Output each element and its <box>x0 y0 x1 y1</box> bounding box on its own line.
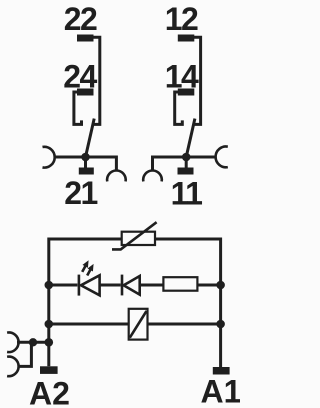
wire coil frame top <box>49 239 221 367</box>
svg-text:11: 11 <box>171 176 203 212</box>
plug contact right bottom <box>143 171 162 182</box>
terminal 24 <box>77 89 94 96</box>
LED cathode bar <box>78 275 81 296</box>
node A2 plug <box>29 338 37 346</box>
node LED branch right <box>216 281 225 290</box>
plug contact left side <box>42 147 54 168</box>
node LED branch left <box>45 281 54 290</box>
varistor RV <box>122 232 155 245</box>
plug contact left bottom <box>107 171 126 182</box>
terminal 21 <box>79 168 94 175</box>
wire to terminal 11 <box>185 157 188 168</box>
plug contact A2 lower <box>7 357 19 377</box>
wire LED branch <box>49 284 221 287</box>
node left common <box>81 153 90 162</box>
switch blade right <box>186 119 195 157</box>
diode cathode bar <box>121 275 124 296</box>
svg-text:22: 22 <box>64 1 97 37</box>
wire A2 plug riser <box>18 342 31 366</box>
relay coil K <box>129 309 148 340</box>
terminal 11 <box>178 168 194 175</box>
svg-text:A1: A1 <box>201 374 240 408</box>
node A2 rail <box>45 338 54 347</box>
wire A2 plug branch <box>17 341 49 344</box>
plug contact A2 upper <box>7 333 19 353</box>
terminal 22 <box>77 35 94 42</box>
svg-text:12: 12 <box>165 1 198 37</box>
varistor diagonal <box>112 222 157 249</box>
wire coil branch <box>49 323 221 326</box>
terminal 14 <box>178 89 195 96</box>
node right common <box>182 153 191 162</box>
LED arrow 2 <box>87 264 93 276</box>
node coil branch left <box>45 320 54 329</box>
wire 12 to fixed contact <box>193 37 201 124</box>
node coil branch right <box>216 320 225 329</box>
LED arrow 1 <box>82 260 88 272</box>
switch blade left <box>86 119 95 157</box>
svg-text:21: 21 <box>64 175 97 211</box>
wire 14 to fixed contact <box>175 92 183 124</box>
wire common right <box>153 157 216 171</box>
wire common left <box>55 157 117 171</box>
coil diagonal <box>130 311 147 338</box>
terminal 12 <box>178 35 195 42</box>
resistor R <box>163 277 197 291</box>
wire 24 to fixed contact <box>74 92 82 124</box>
plug contact right side <box>216 147 228 168</box>
terminal A2 <box>40 366 58 374</box>
LED triangle <box>81 275 100 295</box>
terminal A1 <box>213 367 230 375</box>
wire to terminal 21 <box>84 157 87 168</box>
diode triangle <box>124 276 140 295</box>
wire 22 to fixed contact <box>92 37 100 124</box>
svg-text:A2: A2 <box>29 376 70 408</box>
